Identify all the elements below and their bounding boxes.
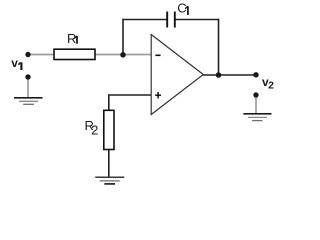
svg-text:2: 2 xyxy=(91,123,98,138)
wire R2 top lead xyxy=(108,94,110,110)
node v1 terminal xyxy=(25,52,30,57)
wire v2 ground stem xyxy=(255,95,257,114)
node v2 terminal xyxy=(253,72,258,77)
op-amp U1 xyxy=(151,35,203,115)
wire v1 to R1 xyxy=(28,54,54,56)
wire R2 bottom lead xyxy=(108,150,110,178)
node junction at inverting input xyxy=(120,52,126,58)
op-amp minus pin xyxy=(155,54,160,56)
ground for R2 xyxy=(95,177,124,184)
resistor R1 xyxy=(54,49,95,59)
node v1 ground terminal xyxy=(25,74,30,79)
wire feedback right vertical xyxy=(218,19,220,75)
node output junction xyxy=(216,72,222,78)
node v2 ground terminal xyxy=(253,92,258,97)
wire op-amp noninverting input xyxy=(109,94,151,96)
ground for v2 xyxy=(243,114,271,121)
wire feedback top left horizontal xyxy=(122,19,167,21)
svg-text:v: v xyxy=(11,56,18,70)
capacitor C1 xyxy=(167,12,175,28)
wire feedback top right horizontal xyxy=(175,19,219,21)
op-amp plus pin xyxy=(155,92,161,98)
wire v1 ground stem xyxy=(27,77,29,98)
wire R1 to op-amp inverting input xyxy=(95,54,151,56)
wire op-amp output to v2 xyxy=(203,74,256,76)
wire feedback left vertical xyxy=(122,19,124,55)
ground for v1 xyxy=(14,98,43,105)
resistor R2 xyxy=(104,110,114,149)
svg-text:2: 2 xyxy=(268,79,274,91)
